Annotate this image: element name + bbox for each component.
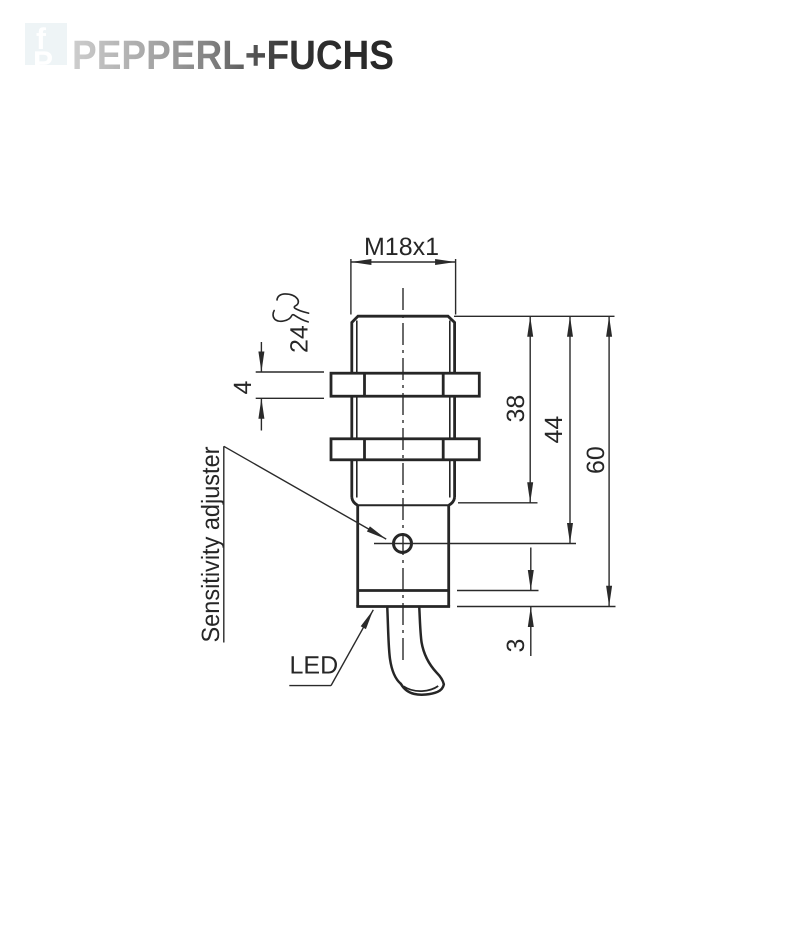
housing (356, 505, 450, 606)
logo emblem P+F watermark (25, 23, 67, 79)
housing top edge (358, 504, 449, 506)
wrench icon (273, 294, 309, 322)
sensitivity adjuster circle (394, 535, 412, 553)
svg-text:44: 44 (540, 416, 568, 444)
nut 2 (331, 439, 479, 460)
svg-text:P: P (33, 46, 53, 79)
barrel between nuts (352, 396, 455, 439)
svg-text:M18x1: M18x1 (364, 233, 439, 261)
leader sensitivity adjuster (224, 446, 386, 642)
dimension 44 (569, 316, 571, 543)
line through adjuster / 44 reference (374, 543, 576, 545)
dimension 3 (530, 548, 532, 657)
sensor barrel top (thread) (352, 316, 455, 373)
cable end face (404, 686, 439, 691)
svg-text:LED: LED (290, 651, 339, 679)
svg-text:PEPPERL+FUCHS: PEPPERL+FUCHS (72, 32, 394, 78)
extension line 38 bottom (458, 502, 538, 504)
svg-text:Sensitivity adjuster: Sensitivity adjuster (197, 447, 225, 643)
cable (387, 608, 444, 695)
dimension 4 (256, 342, 324, 431)
extension line step (457, 590, 539, 592)
svg-text:4: 4 (229, 381, 257, 395)
barrel below nut 2 and neck (352, 460, 455, 506)
centerline (402, 288, 404, 660)
svg-text:60: 60 (582, 446, 610, 474)
nut 1 (331, 373, 479, 396)
svg-text:38: 38 (502, 395, 530, 423)
right extension line top (454, 315, 615, 317)
svg-text:24: 24 (286, 325, 314, 353)
dimension 38 (529, 316, 531, 503)
thread inner lines (357, 321, 450, 498)
leader LED (289, 610, 373, 686)
dimension M18x1 (351, 259, 456, 315)
extension line bottom (457, 606, 616, 608)
svg-text:3: 3 (502, 639, 530, 653)
dimension 60 (608, 316, 610, 606)
